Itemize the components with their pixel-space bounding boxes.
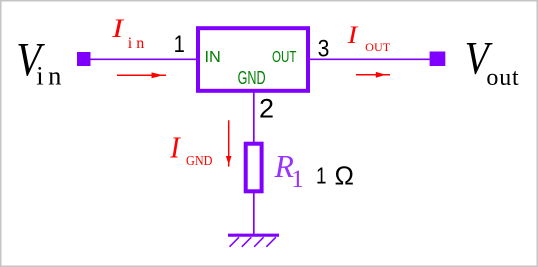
terminal Vin	[77, 52, 91, 66]
svg-text:out: out	[486, 65, 519, 91]
svg-text:1: 1	[291, 166, 304, 193]
wire output	[308, 58, 431, 60]
svg-text:1: 1	[174, 30, 185, 57]
svg-text:GND: GND	[238, 68, 266, 88]
svg-text:OUT: OUT	[365, 40, 391, 54]
svg-text:GND: GND	[186, 153, 213, 168]
node Vin label	[16, 32, 66, 90]
svg-text:OUT: OUT	[272, 49, 297, 66]
svg-text:in: in	[128, 35, 148, 52]
current label I_GND	[169, 131, 212, 169]
wire pin2 to resistor	[253, 92, 255, 145]
node Vout label	[465, 32, 520, 91]
regulator U1 box	[198, 28, 308, 91]
svg-text:1: 1	[316, 164, 326, 189]
svg-text:I: I	[111, 15, 124, 44]
svg-text:in: in	[36, 61, 66, 91]
wire resistor to ground	[253, 192, 255, 235]
svg-text:Ω: Ω	[335, 161, 354, 191]
ground	[228, 235, 279, 247]
terminal Vout	[430, 52, 446, 67]
current arrow I_OUT	[356, 72, 390, 78]
wire input	[91, 58, 199, 60]
label R1	[274, 149, 304, 193]
svg-text:2: 2	[259, 93, 274, 123]
current label I_in	[111, 15, 148, 52]
current label I_OUT	[347, 21, 391, 54]
svg-text:3: 3	[318, 35, 330, 62]
current arrow I_GND	[226, 120, 232, 166]
resistor R1	[246, 144, 262, 192]
value 1 ohm	[316, 161, 354, 191]
current arrow I_in	[117, 72, 166, 78]
svg-text:IN: IN	[205, 49, 221, 66]
